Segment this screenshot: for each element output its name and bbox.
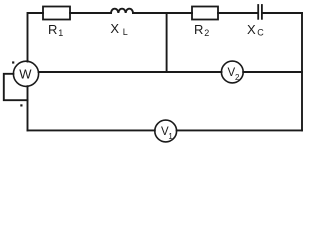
wire R1 to XL: [70, 12, 111, 14]
svg-text:2: 2: [204, 28, 209, 38]
svg-text:1: 1: [168, 132, 173, 141]
wire V1 to bottom-right corner: [177, 129, 302, 131]
wire junction vertical drop: [166, 13, 168, 72]
resistor R1: [43, 7, 70, 20]
svg-text:X: X: [247, 22, 256, 37]
inductor XL: [111, 9, 133, 13]
voltmeter V1: [155, 120, 177, 142]
svg-text:R: R: [194, 22, 203, 37]
svg-text:R: R: [48, 22, 57, 37]
wire XC to right rail: [263, 12, 302, 14]
wire right rail vertical: [301, 13, 303, 130]
svg-text:1: 1: [58, 28, 63, 38]
capacitor XC: [258, 5, 262, 19]
polarity dot upper (wattmeter current coil): [12, 61, 14, 63]
svg-text:X: X: [110, 21, 119, 36]
wire R2 to XC: [218, 12, 257, 14]
resistor R2: [192, 7, 218, 20]
wire bottom rail left to V1: [28, 129, 155, 131]
wire V2 to right rail: [243, 71, 302, 73]
wire wattmeter potential-coil loop: [4, 74, 28, 100]
wire W bottom vertical to bottom rail: [27, 86, 29, 130]
wire W to V2: [39, 71, 222, 73]
wattmeter W: [13, 61, 38, 86]
wire XL to R2 through junction: [133, 12, 192, 14]
svg-text:W: W: [19, 66, 32, 81]
voltmeter V2: [221, 61, 243, 83]
svg-text:C: C: [257, 28, 264, 38]
polarity dot lower (wattmeter potential coil): [20, 104, 22, 106]
wire top-left horizontal from node A to R1: [28, 13, 44, 62]
svg-text:L: L: [123, 27, 128, 37]
svg-text:2: 2: [235, 73, 240, 82]
